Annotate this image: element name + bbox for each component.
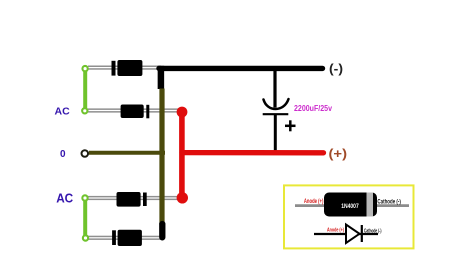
svg-text:Anode (+): Anode (+) [304, 198, 324, 205]
svg-text:(+): (+) [329, 146, 348, 161]
svg-text:AC: AC [55, 105, 71, 117]
svg-text:Cathode (-): Cathode (-) [364, 228, 382, 234]
svg-text:1N4007: 1N4007 [341, 204, 359, 210]
svg-text:Cathode (-): Cathode (-) [377, 198, 401, 205]
svg-text:0: 0 [60, 149, 66, 160]
svg-text:Anode (+): Anode (+) [327, 228, 344, 234]
svg-text:2200uF/25v: 2200uF/25v [294, 104, 332, 113]
svg-text:AC: AC [56, 191, 73, 205]
svg-text:(-): (-) [329, 61, 343, 76]
